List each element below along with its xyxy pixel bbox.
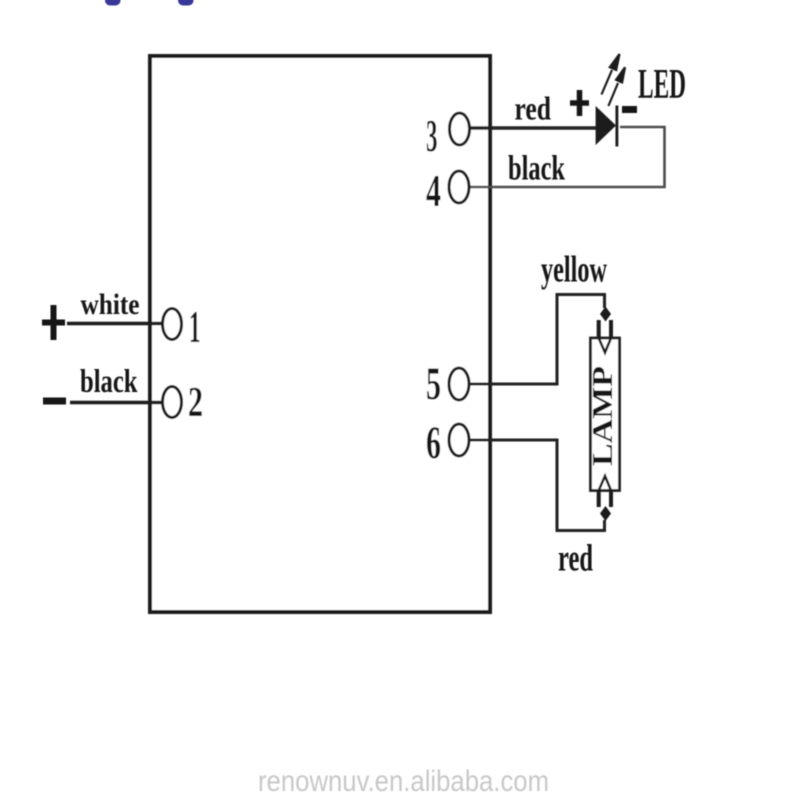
pin 6 terminal: [449, 424, 469, 456]
svg-text:black: black: [508, 149, 565, 188]
lamp top pin right: [609, 320, 613, 337]
cropped blue title text remnant (left blob): [105, 0, 121, 6]
LED D1 cathode bar: [615, 106, 618, 147]
svg-text:6: 6: [426, 417, 441, 469]
svg-text:black: black: [80, 364, 138, 400]
svg-text:2: 2: [188, 380, 203, 426]
pin 4 terminal: [449, 171, 469, 203]
plus symbol (LED anode polarity): [570, 90, 589, 116]
pin 1 terminal: [163, 309, 182, 340]
wire W2: - black input to pin 2: [70, 401, 163, 405]
svg-text:LED: LED: [638, 62, 686, 108]
plus symbol (+ input): [42, 305, 65, 340]
svg-text:3: 3: [426, 110, 438, 161]
pin 5 terminal: [449, 368, 469, 400]
wire W6: red wire pin 6 to lamp bottom electrode: [469, 440, 605, 531]
lamp LP1 tube body: [591, 338, 620, 491]
lamp bottom filament chevron: [599, 476, 611, 491]
pin 2 terminal: [163, 387, 182, 418]
wire W1: + white input to pin 1: [67, 322, 163, 326]
LED light emission arrow 1: [602, 54, 620, 95]
lamp top connection node (solder dot): [600, 307, 611, 322]
lamp bottom pin left: [597, 491, 601, 507]
minus symbol (LED cathode polarity): [622, 106, 637, 113]
wire W4: black return wire LED cathode to pin 4: [469, 127, 665, 187]
ballast control box U1: [150, 56, 490, 612]
pin 3 terminal: [450, 113, 470, 145]
cropped blue title text remnant (right blob): [178, 0, 194, 6]
lamp bottom connection node (solder dot): [600, 506, 611, 521]
lamp bottom pin right: [609, 491, 613, 507]
svg-text:5: 5: [426, 358, 441, 410]
LED light emission arrow 2: [608, 67, 625, 106]
lamp top pin left: [597, 320, 601, 337]
wire W5: yellow wire pin 5 to lamp top electrode: [469, 295, 605, 385]
lamp top filament chevron: [599, 338, 611, 353]
svg-text:white: white: [81, 289, 140, 321]
svg-text:LAMP: LAMP: [587, 366, 619, 466]
svg-text:1: 1: [189, 301, 201, 352]
LED D1 anode triangle: [596, 106, 616, 145]
svg-text:yellow: yellow: [541, 250, 607, 291]
wire W3: red wire pin 3 to LED anode: [469, 126, 596, 130]
svg-text:4: 4: [426, 165, 441, 216]
svg-text:red: red: [515, 92, 552, 128]
svg-text:renownuv.en.alibaba.com: renownuv.en.alibaba.com: [258, 765, 549, 798]
svg-text:red: red: [558, 538, 593, 580]
minus symbol (- input): [43, 398, 66, 405]
